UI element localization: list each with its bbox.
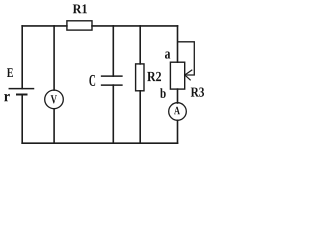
label R1 (73, 4, 87, 13)
wire: top bus, R1 to right corner (92, 25, 178, 27)
wire: bottom bus (22, 142, 177, 144)
label b (160, 88, 166, 98)
rheostat R3 wiper arrowhead (184, 70, 192, 80)
wire: R2 branch lower (139, 91, 141, 143)
capacitor C top plate (102, 75, 122, 77)
wire: left edge, battery down to bottom corner (21, 95, 23, 144)
wire: capacitor branch lower (112, 85, 114, 143)
ammeter A circle (169, 103, 187, 121)
wire: voltmeter branch lower (53, 109, 55, 143)
wire: ammeter to bottom corner (177, 120, 179, 143)
label C (89, 75, 95, 86)
wire: R3 to ammeter (177, 89, 179, 103)
capacitor C bottom plate (102, 84, 122, 86)
wire: right edge, top corner to R3 (177, 26, 179, 62)
wire: voltmeter branch upper (53, 26, 55, 90)
voltmeter V circle (45, 90, 64, 109)
resistor R2 (136, 64, 144, 91)
wire: capacitor branch upper (112, 26, 114, 76)
wire: left edge, top corner down to battery (21, 26, 23, 89)
wire: R3 wiper feed, branch from right edge (178, 42, 194, 75)
battery E,r long plate (9, 88, 33, 90)
wire: R2 branch upper (139, 26, 141, 64)
voltmeter V letter (51, 95, 57, 103)
wire: top bus, left corner to R1 (22, 25, 67, 27)
ammeter A letter (174, 107, 180, 115)
resistor R1 (67, 21, 92, 30)
label E (7, 68, 13, 77)
label R2 (147, 72, 161, 81)
battery E,r short plate (17, 94, 27, 96)
rheostat R3 body (170, 62, 184, 89)
label R3 (191, 87, 204, 96)
label r (4, 94, 10, 101)
label a (165, 51, 170, 58)
